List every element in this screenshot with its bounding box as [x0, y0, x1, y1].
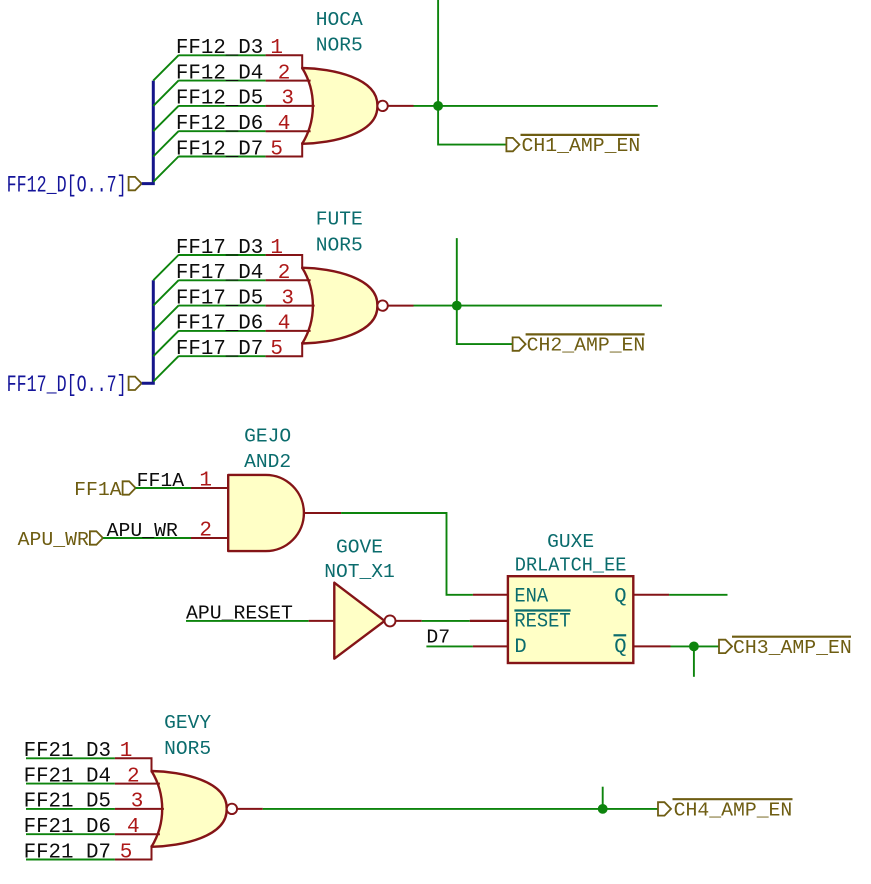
svg-text:NOR5: NOR5 [164, 738, 211, 760]
global label CH2_AMP_EN [513, 334, 646, 356]
wire FF12_D6 [178, 130, 265, 132]
wire vertical at CH2 node [457, 238, 513, 344]
wire HOCA output [414, 105, 658, 107]
bus entry to FF17_D4 [153, 280, 178, 305]
NOR5 gate GEVY [115, 758, 263, 859]
svg-text:3: 3 [281, 287, 294, 310]
NOR5 gate FUTE [266, 255, 414, 356]
pin ENA line of GUXE [473, 594, 508, 596]
wire GEJO output to ENA [341, 513, 473, 595]
svg-text:1: 1 [270, 37, 283, 60]
svg-text:HOCA: HOCA [316, 9, 363, 31]
svg-text:5: 5 [120, 841, 133, 864]
global bus label FF17_D[0..7] [7, 372, 142, 398]
wire FUTE output [414, 305, 662, 307]
svg-text:FF17_D6: FF17_D6 [176, 313, 263, 336]
svg-text:5: 5 [270, 338, 283, 361]
svg-text:RESET: RESET [514, 611, 570, 634]
wire FF21_D3 [26, 757, 115, 759]
pin name Qbar (with overline) [614, 635, 627, 659]
global label CH4_AMP_EN [658, 799, 793, 821]
bus FF12_D [142, 81, 154, 184]
svg-text:FF12_D7: FF12_D7 [176, 138, 263, 161]
svg-text:CH3_AMP_EN: CH3_AMP_EN [733, 637, 852, 659]
wire FF1A [136, 487, 191, 489]
pin name RESET (with overline) [514, 611, 570, 634]
svg-text:1: 1 [199, 470, 212, 493]
svg-text:FF12_D4: FF12_D4 [176, 62, 263, 85]
junction CH3 node [689, 642, 699, 652]
wire FF12_D7 [178, 156, 265, 158]
svg-text:NOT_X1: NOT_X1 [324, 561, 395, 583]
svg-text:2: 2 [278, 62, 291, 85]
svg-text:FF17_D4: FF17_D4 [176, 262, 263, 285]
svg-text:FF1A: FF1A [137, 470, 185, 492]
junction CH4 node [598, 804, 608, 814]
global label CH3_AMP_EN [719, 637, 852, 659]
svg-text:DRLATCH_EE: DRLATCH_EE [515, 554, 627, 576]
svg-text:ENA: ENA [514, 586, 548, 609]
svg-text:APU_WR: APU_WR [107, 520, 178, 542]
svg-text:FF1A: FF1A [74, 479, 122, 501]
svg-text:FF17_D3: FF17_D3 [176, 237, 263, 260]
svg-text:CH1_AMP_EN: CH1_AMP_EN [522, 135, 641, 157]
svg-text:2: 2 [199, 520, 212, 543]
wire stub above CH4 junction [602, 787, 604, 809]
svg-text:1: 1 [120, 740, 133, 763]
NOT gate GOVE [334, 583, 421, 659]
bus entry to FF12_D3 [153, 55, 178, 80]
svg-text:FF21_D5: FF21_D5 [24, 791, 111, 814]
svg-text:FF12_D5: FF12_D5 [176, 88, 263, 111]
junction CH1 node [433, 101, 443, 111]
wire FF17_D4 [178, 279, 265, 281]
junction CH2 node [452, 301, 462, 311]
svg-text:FF17_D7: FF17_D7 [176, 338, 263, 361]
svg-text:1: 1 [270, 237, 283, 260]
svg-text:FF12_D3: FF12_D3 [176, 37, 263, 60]
svg-text:4: 4 [278, 313, 291, 336]
svg-text:CH2_AMP_EN: CH2_AMP_EN [527, 335, 646, 357]
bus entry to FF17_D3 [153, 255, 178, 280]
svg-text:Q: Q [614, 636, 626, 659]
svg-text:4: 4 [278, 113, 291, 136]
wire APU_WR [103, 537, 191, 539]
bus entry to FF17_D5 [153, 306, 178, 331]
NOR5 gate HOCA [266, 55, 414, 156]
bus entry to FF12_D5 [153, 106, 178, 131]
svg-text:NOR5: NOR5 [316, 234, 363, 256]
wire FF17_D5 [178, 305, 265, 307]
wire FF12_D4 [178, 80, 265, 82]
AND2 gate GEJO [228, 475, 341, 551]
bus entry to FF12_D4 [153, 81, 178, 106]
svg-text:FF12_D6: FF12_D6 [176, 113, 263, 136]
wire FF17_D7 [178, 355, 265, 357]
svg-text:D: D [514, 636, 526, 659]
svg-text:FF21_D4: FF21_D4 [24, 765, 111, 788]
svg-text:GUXE: GUXE [547, 531, 594, 553]
svg-text:Q: Q [614, 586, 626, 609]
wire APU_RESET [186, 620, 309, 622]
pin input line of GOVE [309, 620, 335, 622]
bus FF17_D [142, 280, 154, 383]
svg-text:NOR5: NOR5 [316, 35, 363, 57]
svg-text:4: 4 [127, 816, 140, 839]
global bus label FF12_D[0..7] [7, 172, 142, 198]
svg-text:GEJO: GEJO [244, 426, 291, 448]
svg-text:CH4_AMP_EN: CH4_AMP_EN [674, 800, 793, 822]
svg-text:5: 5 [270, 138, 283, 161]
svg-text:FF21_D6: FF21_D6 [24, 816, 111, 839]
pin 1 line of GEJO [191, 487, 228, 489]
wire FF21_D5 [26, 808, 115, 810]
svg-text:FUTE: FUTE [316, 209, 363, 231]
global label CH1_AMP_EN [506, 135, 640, 157]
pin 2 line of GEJO [191, 537, 228, 539]
svg-text:AND2: AND2 [244, 451, 291, 473]
svg-text:GEVY: GEVY [164, 712, 211, 734]
latch GUXE DRLATCH_EE body [508, 576, 633, 663]
svg-text:FF17_D[O..7]: FF17_D[O..7] [7, 372, 127, 398]
svg-text:APU_WR: APU_WR [18, 529, 89, 551]
bus entry to FF12_D7 [153, 157, 178, 182]
svg-text:FF21_D7: FF21_D7 [24, 841, 111, 864]
wire GOVE output to RESET [422, 620, 470, 622]
wire FF17_D6 [178, 330, 265, 332]
svg-text:GOVE: GOVE [336, 537, 383, 559]
wire Q output [669, 594, 727, 596]
svg-text:FF21_D3: FF21_D3 [24, 740, 111, 763]
pin RESET line of GUXE [470, 620, 508, 622]
pin D line of GUXE [473, 645, 508, 647]
wire FF21_D6 [26, 833, 115, 835]
svg-text:2: 2 [127, 765, 140, 788]
wire stub below CH3 junction [693, 646, 695, 676]
global label FF1A [74, 479, 135, 501]
wire FF21_D4 [26, 783, 115, 785]
svg-text:D7: D7 [426, 627, 450, 649]
bus entry to FF12_D6 [153, 131, 178, 156]
wire D7 [426, 645, 473, 647]
wire GEVY output [263, 808, 658, 810]
bus entry to FF17_D6 [153, 331, 178, 356]
wire FF21_D7 [26, 859, 115, 861]
wire FF12_D3 [178, 54, 265, 56]
svg-text:2: 2 [278, 262, 291, 285]
svg-text:3: 3 [281, 88, 294, 111]
wire FF12_D5 [178, 105, 265, 107]
wire vertical at CH1 node [438, 0, 506, 145]
wire Qbar to CH3_AMP_EN [671, 645, 720, 647]
pin Q line of GUXE [633, 594, 669, 596]
svg-text:FF12_D[O..7]: FF12_D[O..7] [7, 172, 127, 198]
svg-text:3: 3 [131, 791, 144, 814]
pin Qbar line of GUXE [633, 645, 670, 647]
wire FF17_D3 [178, 254, 265, 256]
global label APU_WR [18, 529, 103, 551]
bus entry to FF17_D7 [153, 356, 178, 381]
svg-text:FF17_D5: FF17_D5 [176, 287, 263, 310]
